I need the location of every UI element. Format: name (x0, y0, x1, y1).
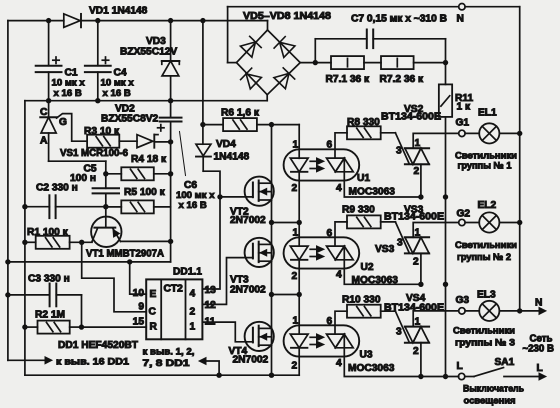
svg-text:R6 1,6 к: R6 1,6 к (221, 108, 260, 119)
svg-text:R10 330: R10 330 (342, 295, 381, 306)
diode VD5 (upper left arm) (240, 42, 255, 57)
svg-text:х 16 В: х 16 В (179, 200, 207, 211)
svg-text:~230 В: ~230 В (523, 344, 555, 355)
wire U1 pin4 (344, 158, 421, 197)
switch SA1 (465, 376, 474, 378)
svg-text:освещения: освещения (464, 395, 516, 406)
capacitor C1 (48, 21, 50, 66)
diode VD4 (196, 144, 211, 156)
svg-text:VD3: VD3 (146, 36, 166, 47)
optocoupler U2 MOC3063 (284, 237, 360, 268)
svg-text:1N4148: 1N4148 (214, 152, 250, 163)
svg-text:группы № 2: группы № 2 (457, 251, 511, 262)
node VT2 source (269, 220, 274, 225)
svg-text:VD4: VD4 (216, 139, 236, 150)
svg-text:MOC3063: MOC3063 (348, 363, 395, 374)
wire ground arrow pins 1 2 7 8 (206, 361, 219, 375)
optocoupler U1 MOC3063 (284, 149, 360, 180)
svg-text:SA1: SA1 (495, 357, 515, 368)
svg-text:к выв. 16 DD1: к выв. 16 DD1 (56, 357, 130, 368)
counter DD1 HEF4520BT (146, 279, 202, 339)
svg-text:1 к: 1 к (457, 102, 471, 113)
capacitor C6 (170, 101, 172, 118)
node VS2 out (443, 194, 448, 199)
svg-text:R9 330: R9 330 (342, 205, 375, 216)
svg-text:U1: U1 (357, 173, 370, 184)
node VS2 mt1 (418, 194, 423, 199)
svg-text:2: 2 (292, 183, 298, 194)
node C1 top (46, 18, 51, 23)
node R4 left (103, 171, 108, 176)
node R6 right (269, 122, 274, 127)
svg-text:EL2: EL2 (478, 200, 497, 211)
svg-text:1: 1 (293, 140, 299, 151)
transistor VT2 2N7002 (245, 177, 274, 206)
svg-text:N: N (457, 14, 464, 25)
triac VS2 BT134-600E (405, 147, 429, 149)
svg-text:4: 4 (336, 183, 342, 194)
svg-text:Светильники: Светильники (453, 324, 515, 335)
zener VD2 (137, 135, 153, 148)
node supply row bus (5, 259, 10, 264)
wire R11 down bus (445, 117, 447, 377)
wire U3 pin6 (335, 311, 347, 334)
svg-text:2: 2 (414, 166, 420, 177)
wire VT4 drain (271, 295, 273, 329)
capacitor C5 (105, 174, 107, 189)
svg-text:BT134-600E: BT134-600E (381, 112, 441, 123)
diode VD6 (upper right arm) (280, 42, 295, 57)
wire VT4 source (271, 345, 273, 375)
terminal G3 (459, 308, 465, 314)
resistor R2 (22, 324, 27, 329)
svg-text:L: L (457, 361, 463, 372)
node VS3 mt1 (418, 282, 423, 287)
svg-text:N: N (535, 298, 542, 309)
node VD2-C6 (168, 139, 173, 144)
wire U3 pin4 (344, 334, 458, 376)
wire VS2 mt2 to G1 (413, 133, 459, 148)
node L bottom (443, 374, 448, 379)
svg-text:15: 15 (133, 317, 145, 328)
svg-text:х 16 В: х 16 В (103, 88, 131, 99)
svg-text:CT2: CT2 (164, 284, 184, 295)
wire VS4 mt1 (420, 343, 422, 377)
node R6 left (200, 122, 205, 127)
wire VT2 source (271, 200, 273, 223)
svg-text:EL3: EL3 (477, 290, 496, 301)
node VT1 base (79, 240, 84, 245)
ground bus bottom (25, 374, 299, 376)
node C2 left (22, 204, 27, 209)
wire R7.1-R7.2 (364, 62, 381, 64)
svg-text:6: 6 (327, 316, 333, 327)
node VD4-gate (217, 194, 222, 199)
svg-text:4: 4 (190, 289, 196, 300)
resistor R1 (22, 240, 27, 245)
wire to DD1 pin 10 (130, 262, 147, 294)
triac VS3 BT134-600E (405, 236, 429, 238)
wire base to DD1 pin 9 (82, 242, 147, 311)
svg-text:группы № 3: группы № 3 (455, 337, 515, 348)
lamp EL3 (465, 310, 479, 312)
svg-text:6: 6 (327, 140, 333, 151)
node VT4 source (269, 373, 274, 378)
node DD1 ground (216, 373, 221, 378)
wire U1 pin2 (298, 172, 300, 223)
svg-text:Светильники: Светильники (455, 239, 517, 250)
svg-text:BZX55C12V: BZX55C12V (120, 47, 177, 58)
svg-text:2: 2 (190, 307, 196, 318)
svg-text:х 16 В: х 16 В (54, 88, 82, 99)
svg-text:C3 330 н: C3 330 н (28, 274, 70, 285)
svg-text:DD1 HEF4520BT: DD1 HEF4520BT (58, 340, 139, 351)
svg-text:1: 1 (293, 228, 299, 239)
resistor R3 (87, 135, 119, 148)
svg-text:R7.2 36 к: R7.2 36 к (380, 74, 425, 85)
svg-text:Выключатель: Выключатель (463, 383, 524, 394)
wire R6 rail (200, 18, 205, 23)
wire DD1 pin13 to VT2 gate (202, 197, 253, 289)
wire VS3 mt1 (420, 253, 422, 284)
resistor R4 (106, 173, 122, 175)
wire U2 pin2 (298, 260, 300, 295)
wire to DD1 pin 15 (82, 326, 147, 328)
terminal G2 (459, 219, 465, 225)
svg-text:G: G (59, 117, 67, 128)
svg-text:R7.1 36 к: R7.1 36 к (326, 74, 371, 85)
wire VT1 emitter right (121, 240, 171, 242)
label line C6 (180, 132, 186, 176)
wire LED row 1 (272, 222, 300, 224)
svg-text:3: 3 (397, 238, 403, 249)
svg-text:1: 1 (293, 316, 299, 327)
wire U3 pin2 (298, 348, 300, 375)
optocoupler U3 MOC3063 (284, 325, 360, 356)
resistor R5 (106, 206, 122, 208)
node VS3 out (443, 282, 448, 287)
svg-text:R4 18 к: R4 18 к (131, 154, 167, 165)
wire VD2 to C6 rail (154, 141, 170, 143)
resistor R7.2 (381, 56, 414, 69)
svg-text:к выв. 1, 2,: к выв. 1, 2, (143, 347, 195, 358)
svg-text:1: 1 (415, 227, 421, 238)
wire N top (228, 6, 459, 8)
transistor VT3 2N7002 (245, 238, 274, 267)
wire R3-VD2 (119, 140, 137, 142)
wire VS3 mt2 to G2 (413, 223, 459, 238)
svg-text:2: 2 (413, 257, 419, 268)
resistor R6 (203, 124, 223, 126)
svg-text:2: 2 (413, 346, 419, 357)
svg-text:G2: G2 (457, 209, 471, 220)
wire bridge to R7.1 (300, 62, 331, 64)
wire VT3 drain (271, 223, 273, 245)
svg-text:C: C (40, 107, 48, 118)
svg-text:C7 0,15 мк х ~310 В: C7 0,15 мк х ~310 В (351, 14, 447, 25)
wire VD4 to gate net (203, 171, 220, 197)
svg-text:2N7002: 2N7002 (230, 285, 266, 296)
wire U2 pin4 (344, 246, 421, 284)
wire VS2 mt1 (420, 164, 422, 197)
wire VS2 gate (395, 133, 409, 164)
capacitor C3 (5, 292, 10, 297)
svg-text:G1: G1 (456, 118, 470, 129)
capacitor C7 (314, 39, 316, 63)
svg-text:C2 330 н: C2 330 н (36, 183, 78, 194)
svg-text:L: L (537, 363, 543, 374)
lamp EL1 (465, 132, 479, 134)
resistor R8 (347, 126, 381, 139)
transistor VT1 MMBT2907A (91, 217, 121, 247)
svg-text:R: R (150, 322, 158, 333)
svg-text:DD1.1: DD1.1 (173, 267, 202, 278)
svg-text:1: 1 (415, 317, 421, 328)
svg-text:2: 2 (292, 361, 298, 372)
node R4 right (168, 171, 173, 176)
wire VS3 gate (395, 222, 409, 253)
svg-text:EL1: EL1 (478, 108, 497, 119)
svg-text:R2 1M: R2 1M (35, 310, 65, 321)
wire VS4 gate (395, 311, 409, 342)
svg-text:VS3: VS3 (375, 244, 395, 255)
triac VS4 BT134-600E (405, 326, 429, 328)
wire R7.2 right (414, 62, 446, 64)
node VS4 mt1 (418, 374, 423, 379)
svg-text:G3: G3 (456, 295, 470, 306)
svg-text:R3 10 к: R3 10 к (84, 126, 120, 137)
wire U2 pin6 (335, 222, 347, 246)
svg-text:9: 9 (138, 302, 144, 313)
svg-text:10: 10 (133, 288, 145, 299)
svg-text:10 мк х: 10 мк х (101, 78, 135, 89)
node U2 pin2 - U3 pin1 (297, 292, 302, 297)
svg-text:R8 330: R8 330 (347, 117, 380, 128)
wire left bus (7, 21, 9, 361)
svg-text:2: 2 (292, 271, 298, 282)
svg-text:12: 12 (205, 300, 217, 311)
wire top rail (8, 20, 64, 22)
svg-text:группы № 1: группы № 1 (458, 159, 512, 170)
svg-text:E: E (150, 289, 157, 300)
resistor R11 (445, 63, 447, 85)
svg-text:U2: U2 (361, 262, 374, 273)
wire LED row 2 (272, 294, 300, 296)
wire VS1 gate (57, 114, 88, 142)
svg-text:1: 1 (190, 322, 196, 333)
zener VD3 (168, 18, 173, 23)
svg-text:13: 13 (205, 285, 217, 296)
thyristor VS1 MCR100-6 (48, 101, 50, 118)
terminal G1 (459, 130, 465, 136)
node U1 pin2 - U2 pin1 (297, 220, 302, 225)
svg-text:BT134-600E: BT134-600E (384, 212, 444, 223)
terminal N (459, 3, 465, 9)
svg-text:3: 3 (396, 327, 402, 338)
svg-text:6: 6 (327, 228, 333, 239)
wire lower left rail (46, 98, 51, 103)
svg-text:2N7002: 2N7002 (230, 215, 266, 226)
node C5 bottom (103, 204, 108, 209)
resistor R10 (347, 305, 381, 318)
node EL1 bus (517, 131, 522, 136)
lamp EL2 (465, 222, 479, 224)
svg-text:U3: U3 (360, 350, 373, 361)
svg-text:R1 100 к: R1 100 к (27, 227, 69, 238)
svg-text:2N7002: 2N7002 (233, 355, 269, 366)
node emitter rail (168, 239, 173, 244)
svg-text:C: C (149, 307, 157, 318)
wire N to bridge (227, 7, 229, 63)
diode VD7 (lower left arm) (246, 74, 261, 89)
svg-text:BZX55C8V2: BZX55C8V2 (101, 114, 159, 125)
resistor R7.1 (331, 56, 364, 69)
wire VT3 source (271, 261, 273, 294)
wire U2 pin1 (298, 223, 300, 247)
node C4 top (95, 18, 100, 23)
wire R6 to U1 pin1 (272, 124, 300, 126)
svg-text:10 мк х: 10 мк х (52, 78, 86, 89)
wire VT2 drain (271, 125, 273, 184)
svg-text:4: 4 (336, 270, 342, 281)
svg-text:1: 1 (415, 138, 421, 149)
svg-text:VD1 1N4148: VD1 1N4148 (89, 6, 148, 17)
node EL3 bus (517, 308, 522, 313)
node R2 right (79, 324, 84, 329)
terminal L (458, 373, 464, 379)
node EL2 bus (517, 220, 522, 225)
wire supply arrow pin16 (8, 359, 45, 361)
svg-text:VD5–VD8 1N4148: VD5–VD8 1N4148 (243, 11, 331, 22)
wire U3 pin1 (298, 295, 300, 335)
svg-text:R5 100 к: R5 100 к (124, 187, 166, 198)
svg-text:VT1 MMBT2907A: VT1 MMBT2907A (86, 249, 165, 260)
svg-text:MOC3063: MOC3063 (349, 187, 396, 198)
svg-text:7, 8 DD1: 7, 8 DD1 (143, 358, 191, 369)
wire N arrow (520, 310, 539, 312)
svg-text:A: A (40, 136, 48, 147)
wire right bus N (519, 7, 521, 311)
wire U1 pin6 (335, 133, 347, 158)
diode VD1 (64, 14, 80, 27)
transistor VT4 2N7002 (245, 322, 274, 351)
wire DD1 pin11 to VT4 gate (202, 322, 253, 342)
wire DD1 pin12 to VT3 gate (202, 258, 253, 305)
svg-text:VS1 MCR100-6: VS1 MCR100-6 (60, 148, 128, 159)
diode VD8 (lower right arm) (274, 73, 289, 88)
wire VS1 anode (49, 160, 106, 162)
capacitor C2 (25, 206, 50, 208)
node R7 left (313, 60, 318, 65)
capacitor C4 (97, 21, 99, 66)
resistor R9 (347, 215, 381, 228)
wire supply row (8, 261, 171, 263)
wire VS4 mt2 to G3 (413, 311, 459, 327)
node pin10 branch (127, 259, 132, 264)
node VT3 source (269, 292, 274, 297)
node R11 top (443, 60, 448, 65)
svg-text:4: 4 (336, 358, 342, 369)
